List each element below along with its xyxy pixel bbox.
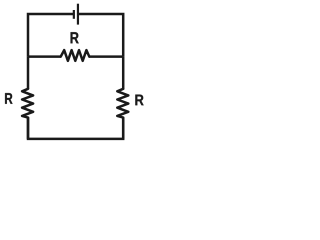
label R (right resistor) bbox=[135, 95, 143, 106]
wire top-left segment bbox=[28, 14, 74, 57]
resistor R (middle horizontal) bbox=[61, 50, 90, 61]
wire middle-right segment bbox=[89, 55, 123, 58]
wire bottom segment bbox=[28, 118, 123, 139]
label R (middle resistor) bbox=[71, 32, 79, 43]
label R (left resistor) bbox=[5, 93, 12, 104]
wire middle-left segment bbox=[28, 55, 61, 58]
resistor R (left vertical) bbox=[22, 89, 33, 118]
resistor R (right vertical) bbox=[117, 89, 128, 118]
wire top-right segment bbox=[78, 14, 123, 57]
battery V1 negative plate (short bar) bbox=[73, 10, 75, 19]
battery V1 positive plate (long bar) bbox=[77, 4, 79, 25]
wire right rail upper bbox=[122, 57, 125, 89]
wire left rail upper bbox=[27, 57, 30, 89]
wire right rail lower bbox=[122, 118, 125, 139]
wire left rail lower bbox=[27, 118, 30, 139]
